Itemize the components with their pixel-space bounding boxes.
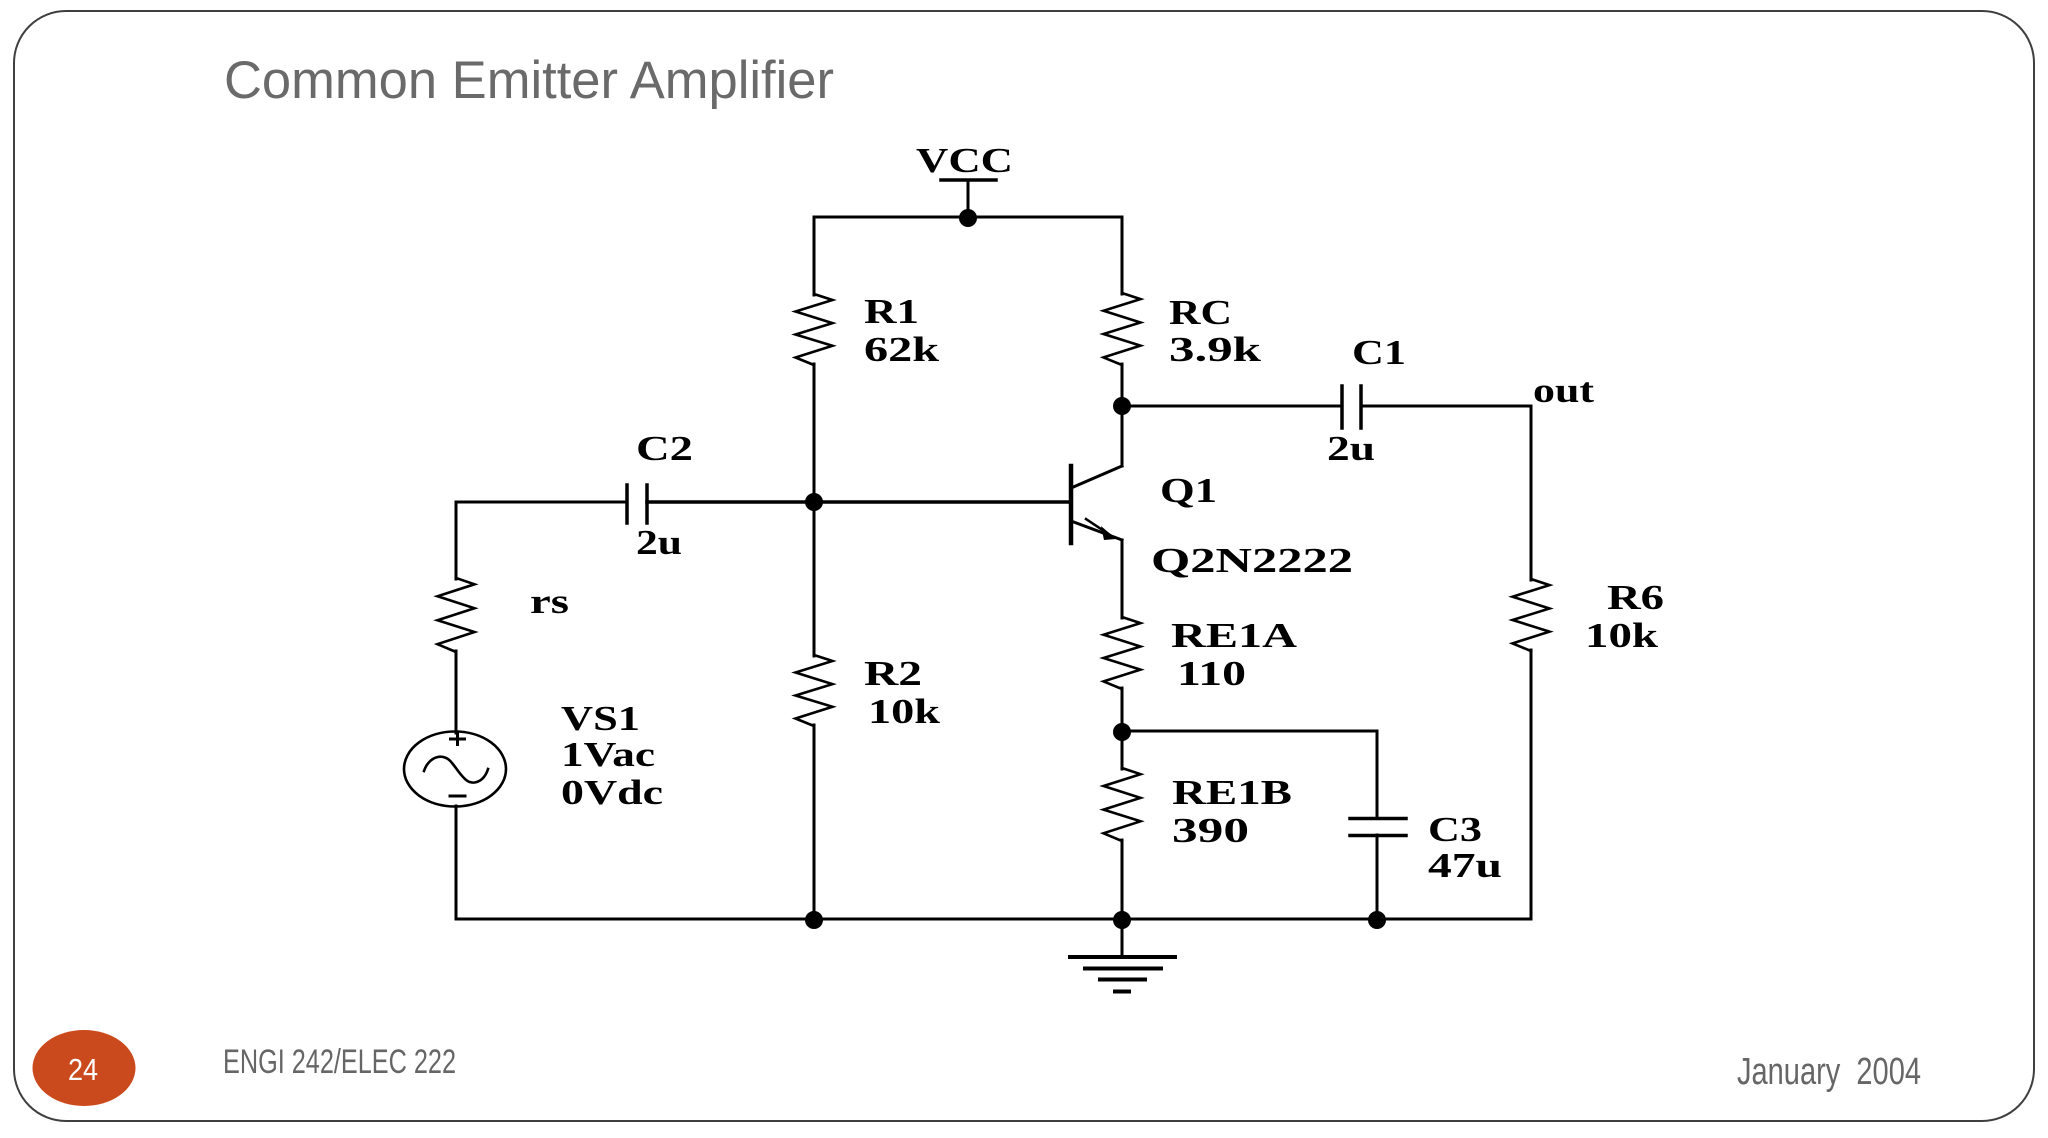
resistor rs bbox=[438, 578, 475, 652]
page number badge bbox=[33, 1030, 136, 1106]
ground bbox=[1070, 919, 1175, 992]
wire RC to collector node bbox=[1121, 364, 1124, 406]
svg-text:out: out bbox=[1533, 371, 1594, 410]
minus VS1 bbox=[450, 795, 465, 798]
wire VS1 to bottom rail bbox=[455, 806, 458, 919]
wire out down to R6 bbox=[1530, 406, 1533, 580]
resistor R6 bbox=[1513, 579, 1550, 651]
svg-text:RE1B: RE1B bbox=[1172, 773, 1292, 812]
wire emitter bbox=[1121, 540, 1124, 618]
svg-text:RE1A: RE1A bbox=[1171, 616, 1298, 655]
wire base bbox=[456, 501, 627, 504]
svg-text:C3: C3 bbox=[1428, 810, 1482, 849]
junction collector node bbox=[1113, 397, 1131, 415]
junction base node bbox=[805, 493, 823, 511]
wire C3 top lead bbox=[1376, 731, 1379, 818]
svg-text:RC: RC bbox=[1169, 293, 1232, 332]
wire R1 to base node bbox=[813, 364, 816, 502]
resistor R2 bbox=[796, 655, 833, 726]
junction bottom C3 bbox=[1368, 911, 1386, 929]
wire emitter node to C3 bbox=[1122, 730, 1377, 733]
svg-text:2u: 2u bbox=[1327, 429, 1375, 468]
wire RC top lead bbox=[1121, 217, 1124, 294]
svg-text:ENGI 242/ELEC 222: ENGI 242/ELEC 222 bbox=[223, 1043, 456, 1081]
svg-text:R2: R2 bbox=[864, 654, 922, 693]
node VCC bbox=[941, 178, 996, 182]
svg-text:47u: 47u bbox=[1428, 846, 1502, 885]
plus VS1 bbox=[451, 738, 465, 741]
wire C3 bottom lead bbox=[1376, 835, 1379, 919]
svg-text:C2: C2 bbox=[636, 429, 693, 468]
svg-text:62k: 62k bbox=[864, 330, 940, 369]
svg-text:Q2N2222: Q2N2222 bbox=[1151, 541, 1353, 580]
resistor RE1B bbox=[1104, 768, 1141, 841]
capacitor C2 bbox=[625, 485, 629, 523]
svg-text:VS1: VS1 bbox=[561, 699, 640, 738]
svg-text:R1: R1 bbox=[864, 292, 919, 331]
svg-text:10k: 10k bbox=[1585, 616, 1659, 655]
svg-text:1Vac: 1Vac bbox=[561, 735, 655, 774]
wire rs to VS1 bbox=[455, 651, 458, 733]
junction bottom emitter bbox=[1113, 911, 1131, 929]
svg-text:R6: R6 bbox=[1607, 578, 1664, 617]
wire R6 bottom lead bbox=[1530, 650, 1533, 919]
svg-text:0Vdc: 0Vdc bbox=[561, 773, 663, 812]
wire RE1B bottom lead bbox=[1121, 840, 1124, 919]
junction bottom R2 bbox=[805, 911, 823, 929]
wire R2 bottom lead bbox=[813, 725, 816, 919]
wire C2 to base node bbox=[647, 500, 1069, 504]
wire RE1A to emitter node bbox=[1121, 688, 1124, 732]
svg-text:Common Emitter Amplifier: Common Emitter Amplifier bbox=[224, 51, 834, 110]
capacitor C1 bbox=[1340, 386, 1344, 428]
resistor RC bbox=[1104, 293, 1141, 365]
wire VCC stub bbox=[967, 181, 970, 217]
svg-text:C1: C1 bbox=[1352, 333, 1406, 372]
source VS1 bbox=[404, 732, 506, 807]
wire bottom rail bbox=[456, 918, 1531, 921]
wire base node to R2 bbox=[813, 502, 816, 656]
svg-text:Q1: Q1 bbox=[1160, 471, 1217, 510]
wire top rail bbox=[814, 216, 1122, 219]
svg-text:rs: rs bbox=[530, 582, 569, 621]
svg-text:10k: 10k bbox=[868, 692, 941, 731]
svg-text:3.9k: 3.9k bbox=[1169, 330, 1262, 369]
wire rs top lead / C2 left corner bbox=[455, 502, 458, 579]
svg-text:VCC: VCC bbox=[916, 141, 1013, 180]
svg-text:24: 24 bbox=[68, 1052, 98, 1087]
junction emitter node bbox=[1113, 723, 1131, 741]
svg-text:January 2004: January 2004 bbox=[1737, 1051, 1921, 1093]
junction VCC rail bbox=[959, 209, 977, 227]
resistor R1 bbox=[796, 294, 833, 365]
resistor RE1A bbox=[1104, 617, 1141, 689]
svg-text:390: 390 bbox=[1172, 811, 1249, 850]
svg-text:110: 110 bbox=[1177, 654, 1246, 693]
wire R1 top lead bbox=[813, 217, 816, 295]
capacitor C3 bbox=[1350, 817, 1406, 821]
transistor Q1 bbox=[1071, 406, 1122, 543]
wire emitter node to RE1B bbox=[1121, 732, 1124, 769]
svg-text:2u: 2u bbox=[636, 523, 682, 562]
wire C1 to out corner bbox=[1361, 405, 1531, 408]
wire collector node to C1 bbox=[1122, 405, 1342, 408]
